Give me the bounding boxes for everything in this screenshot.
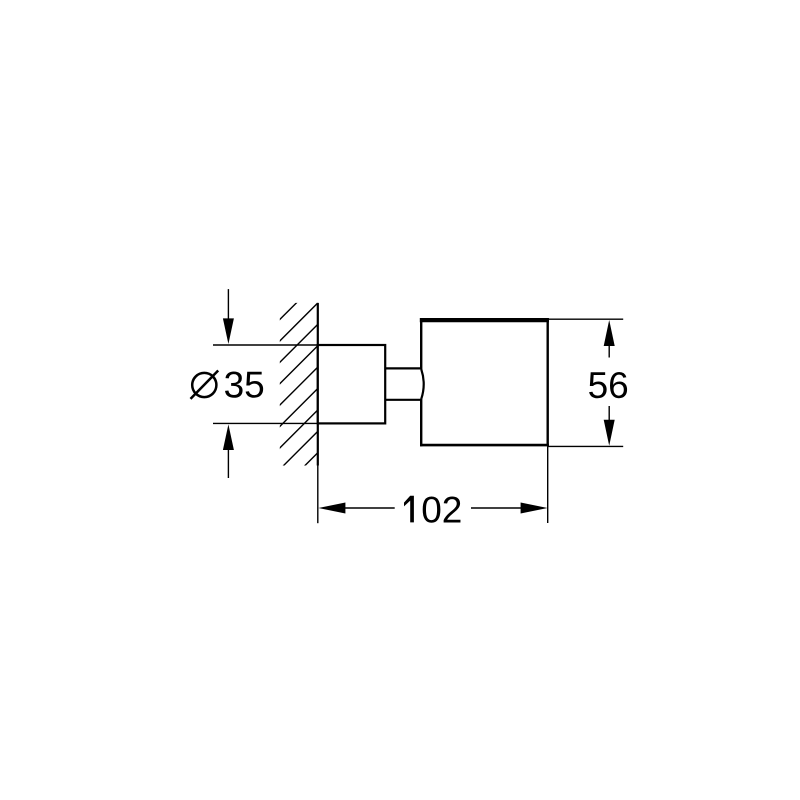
svg-text:02: 02 (421, 489, 462, 530)
102 dimension line left segment (345, 507, 395, 509)
flange plate (dia 35) (318, 345, 385, 423)
cup top edge (thick rim) (420, 318, 549, 322)
56 dimension line upper segment (608, 345, 610, 358)
102 arrow right (521, 503, 548, 514)
cup holder bump arc (421, 369, 423, 398)
56 dimension line lower segment (608, 406, 610, 420)
dia35 arrow up (223, 424, 234, 450)
label 102 digit 1 (custom, no foot) (404, 496, 414, 523)
diameter symbol slash (191, 371, 219, 399)
56 arrow up (604, 320, 615, 346)
cup right edge (547, 318, 549, 446)
neck top line (385, 367, 421, 369)
102 extension line right (547, 446, 549, 523)
dia35 dimension line bottom (227, 450, 229, 479)
cup left edge (lower) (420, 399, 422, 447)
extension line bottom (56 dim) (548, 445, 623, 447)
dia35 dimension line top (227, 289, 229, 319)
wall extension line (102 dim, left) (317, 466, 319, 524)
svg-text:56: 56 (588, 365, 629, 406)
neck bottom line (385, 399, 421, 401)
dia35 arrow down (223, 318, 234, 344)
extension line top (dia 35) (213, 344, 318, 346)
diameter symbol circle (192, 373, 216, 397)
wall hatching (268, 272, 328, 503)
extension line top (56 dim) (548, 318, 623, 320)
extension line bottom (dia 35) (213, 422, 318, 424)
cup left edge (upper) (420, 318, 422, 370)
svg-text:35: 35 (224, 365, 265, 406)
102 arrow left (318, 503, 345, 514)
cup bottom edge (420, 444, 549, 447)
wall line (317, 303, 319, 466)
102 dimension line right segment (471, 507, 522, 509)
56 arrow down (604, 420, 615, 446)
